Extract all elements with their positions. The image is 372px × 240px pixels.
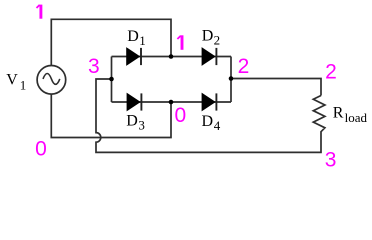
wire top: V1 top lead up, across, down to node 1 [51, 19, 171, 65]
resistor Rload zigzag [313, 96, 325, 134]
svg-text:2: 2 [238, 55, 250, 78]
wire node 3 branch with crossover hop to load bottom [96, 79, 321, 152]
svg-text:D: D [202, 113, 214, 130]
svg-text:D: D [127, 28, 139, 45]
wire top rail of bridge [112, 56, 232, 58]
wire right side of bridge [230, 57, 232, 103]
svg-text:4: 4 [214, 118, 221, 133]
svg-text:3: 3 [325, 149, 337, 172]
diode D3 [127, 93, 140, 110]
node 2 junction dot [229, 76, 234, 81]
diode D4 [202, 93, 215, 110]
diode D2 [202, 48, 215, 65]
svg-text:3: 3 [88, 55, 100, 78]
node 0 junction dot [169, 100, 174, 105]
net label 1 (top left) [37, 5, 41, 19]
svg-text:1: 1 [20, 78, 27, 93]
diode D1 [127, 48, 140, 65]
svg-text:0: 0 [35, 138, 47, 161]
svg-text:V: V [6, 72, 18, 89]
source V1 [37, 66, 66, 95]
svg-text:load: load [345, 110, 368, 125]
svg-text:D: D [126, 112, 138, 129]
wire bottom rail of bridge [112, 101, 232, 103]
wire bottom: V1 bottom lead down, across, up to node 0 [51, 94, 171, 138]
svg-text:2: 2 [214, 33, 221, 48]
svg-text:R: R [333, 104, 344, 121]
svg-text:0: 0 [174, 104, 186, 127]
svg-text:1: 1 [139, 33, 146, 48]
net label 1 (node 1) [177, 35, 182, 50]
svg-text:3: 3 [138, 118, 145, 133]
svg-text:2: 2 [325, 61, 337, 84]
node 3 junction dot [109, 77, 114, 82]
wire left side of bridge [111, 57, 113, 103]
svg-text:D: D [202, 28, 214, 45]
node 1 junction dot [169, 54, 174, 59]
wire node 2 to load top [231, 79, 321, 96]
